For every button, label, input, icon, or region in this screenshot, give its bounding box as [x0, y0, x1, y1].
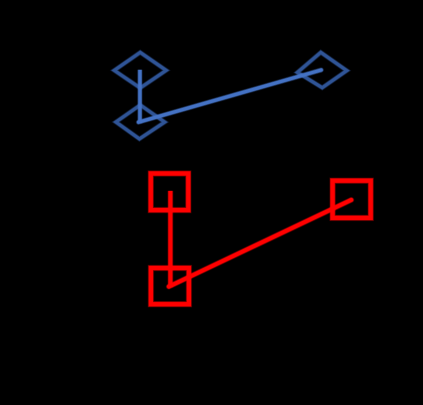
edge D1-D2 (vertical blue connector) — [137, 70, 142, 123]
diamond node D2 (bottom-left) — [116, 105, 165, 139]
diamond node D1 (top-left) — [114, 52, 166, 88]
edge D2-D3 (diagonal blue connector) — [139, 70, 322, 122]
diamond node D3 (top-right) — [297, 52, 346, 87]
square node S2 (bottom) — [151, 268, 189, 304]
edge S1-S2 (vertical red connector) — [167, 191, 173, 287]
square node S3 (right) — [333, 181, 371, 218]
square node S1 (top) — [151, 174, 189, 211]
edge S2-S3 (diagonal red connector) — [169, 200, 351, 287]
